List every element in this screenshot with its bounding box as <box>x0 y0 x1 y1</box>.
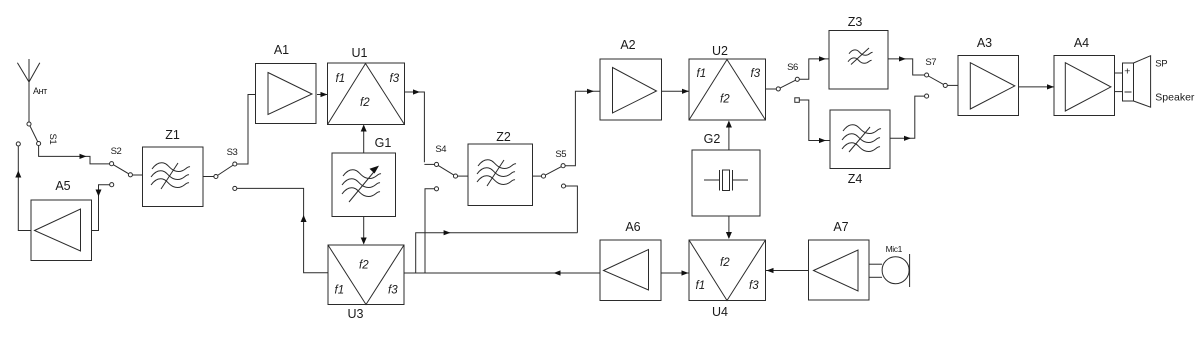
svg-text:S5: S5 <box>555 149 566 160</box>
switch S1 <box>16 122 58 146</box>
speaker SP <box>1115 56 1195 107</box>
wire TX mid line <box>416 230 578 273</box>
amplifier A4 <box>1054 36 1115 116</box>
svg-text:f1: f1 <box>696 280 706 292</box>
wire S5 lower contact to TX mid line <box>566 186 578 233</box>
svg-text:A4: A4 <box>1074 36 1089 50</box>
svg-text:G2: G2 <box>704 132 721 146</box>
svg-text:f3: f3 <box>390 73 400 85</box>
microphone Mic1 <box>869 244 910 287</box>
svg-text:A6: A6 <box>625 220 640 234</box>
wire S4 common to Z2 <box>458 175 468 177</box>
amplifier A7 <box>809 220 870 300</box>
oscillator G2 crystal <box>692 132 760 216</box>
mixer U1 <box>328 46 405 125</box>
switch S6 <box>776 62 799 102</box>
amplifier A2 <box>600 38 662 120</box>
svg-text:A2: A2 <box>620 38 635 52</box>
svg-text:G1: G1 <box>375 136 392 150</box>
wire Z3 to S7 upper contact <box>888 56 924 75</box>
svg-text:A3: A3 <box>977 36 992 50</box>
switch S7 <box>925 57 948 98</box>
svg-text:A5: A5 <box>55 179 70 193</box>
switch S2 <box>110 146 133 187</box>
svg-text:S1: S1 <box>47 134 58 145</box>
wire S1 to S2 <box>39 146 110 164</box>
svg-text:A7: A7 <box>833 220 848 234</box>
wire S4 lower contact down to TX line <box>425 189 434 273</box>
wire S6 lower contact to Z4 <box>799 100 830 143</box>
svg-text:f3: f3 <box>751 68 761 80</box>
switch S4 <box>434 144 457 191</box>
svg-text:f3: f3 <box>749 280 759 292</box>
wire U2 to S6 common <box>766 88 777 90</box>
wire S2 common to Z1 <box>133 174 142 176</box>
wire G1 to U3 <box>361 217 367 245</box>
svg-text:Z2: Z2 <box>496 130 511 144</box>
svg-text:SP: SP <box>1155 59 1167 70</box>
amplifier A3 <box>958 36 1019 116</box>
svg-text:f3: f3 <box>388 285 398 297</box>
svg-text:S6: S6 <box>787 62 798 73</box>
switch S5 <box>533 149 567 188</box>
mixer U4 <box>689 240 766 319</box>
filter Z4 <box>830 110 890 186</box>
wire A2 to U2 <box>662 89 690 94</box>
svg-text:U3: U3 <box>348 307 364 321</box>
svg-text:S7: S7 <box>925 57 936 68</box>
wire S7 common to A3 <box>948 84 958 86</box>
svg-text:f2: f2 <box>360 97 370 109</box>
filter Z3 <box>829 15 888 89</box>
svg-text:S4: S4 <box>435 144 446 155</box>
wire G1 to U1 <box>361 125 367 154</box>
amplifier A6 <box>600 220 661 301</box>
mixer U2 <box>689 44 766 120</box>
svg-text:Z1: Z1 <box>165 128 180 142</box>
svg-text:Ант: Ант <box>33 86 47 96</box>
wire A3 to A4 <box>1019 84 1055 89</box>
svg-text:f2: f2 <box>359 260 369 272</box>
wire Z4 to S7 lower contact <box>890 96 924 141</box>
amplifier A5 <box>31 179 92 261</box>
wire S3 lower contact to U3 output <box>237 188 328 272</box>
wire S6 upper contact to Z3 <box>800 56 829 79</box>
filter Z1 <box>143 128 204 207</box>
svg-text:+: + <box>1124 66 1130 78</box>
wire A6 to U4 <box>661 270 689 275</box>
switch S3 <box>203 147 238 190</box>
svg-text:U1: U1 <box>352 46 368 60</box>
wire G2 to U2 <box>726 121 732 151</box>
antenna Ант <box>17 59 47 96</box>
svg-text:f1: f1 <box>697 68 707 80</box>
oscillator G1 <box>332 136 396 217</box>
svg-text:Mic1: Mic1 <box>886 244 903 254</box>
svg-text:S3: S3 <box>227 147 238 158</box>
filter Z2 <box>468 130 533 206</box>
wire S5 upper contact to A2 input <box>565 89 600 166</box>
wire A7 to U4 <box>766 268 809 273</box>
svg-text:A1: A1 <box>274 43 289 57</box>
svg-text:S2: S2 <box>111 146 122 157</box>
svg-text:f1: f1 <box>335 285 345 297</box>
svg-text:Z4: Z4 <box>848 172 863 186</box>
svg-text:U4: U4 <box>712 305 728 319</box>
svg-text:f2: f2 <box>720 94 730 106</box>
svg-text:U2: U2 <box>712 44 728 58</box>
wire S2 lower contact to A5 input <box>92 185 110 231</box>
wire U1 output to S4 upper contact <box>405 89 435 164</box>
svg-text:Z3: Z3 <box>848 15 863 29</box>
wire S1 left contact to A5 output <box>15 146 31 230</box>
wire G2 to U4 <box>726 216 732 239</box>
amplifier A1 <box>256 43 317 124</box>
wire antenna to S1 <box>28 82 30 122</box>
mixer U3 <box>328 245 404 321</box>
wire S3 upper contact to A1 input <box>237 95 255 165</box>
svg-text:Speaker: Speaker <box>1155 92 1195 104</box>
svg-text:f2: f2 <box>720 257 730 269</box>
wire U3 to A6 TX line <box>404 270 600 275</box>
wire A1 to U1 <box>317 92 328 97</box>
svg-text:f1: f1 <box>336 73 346 85</box>
